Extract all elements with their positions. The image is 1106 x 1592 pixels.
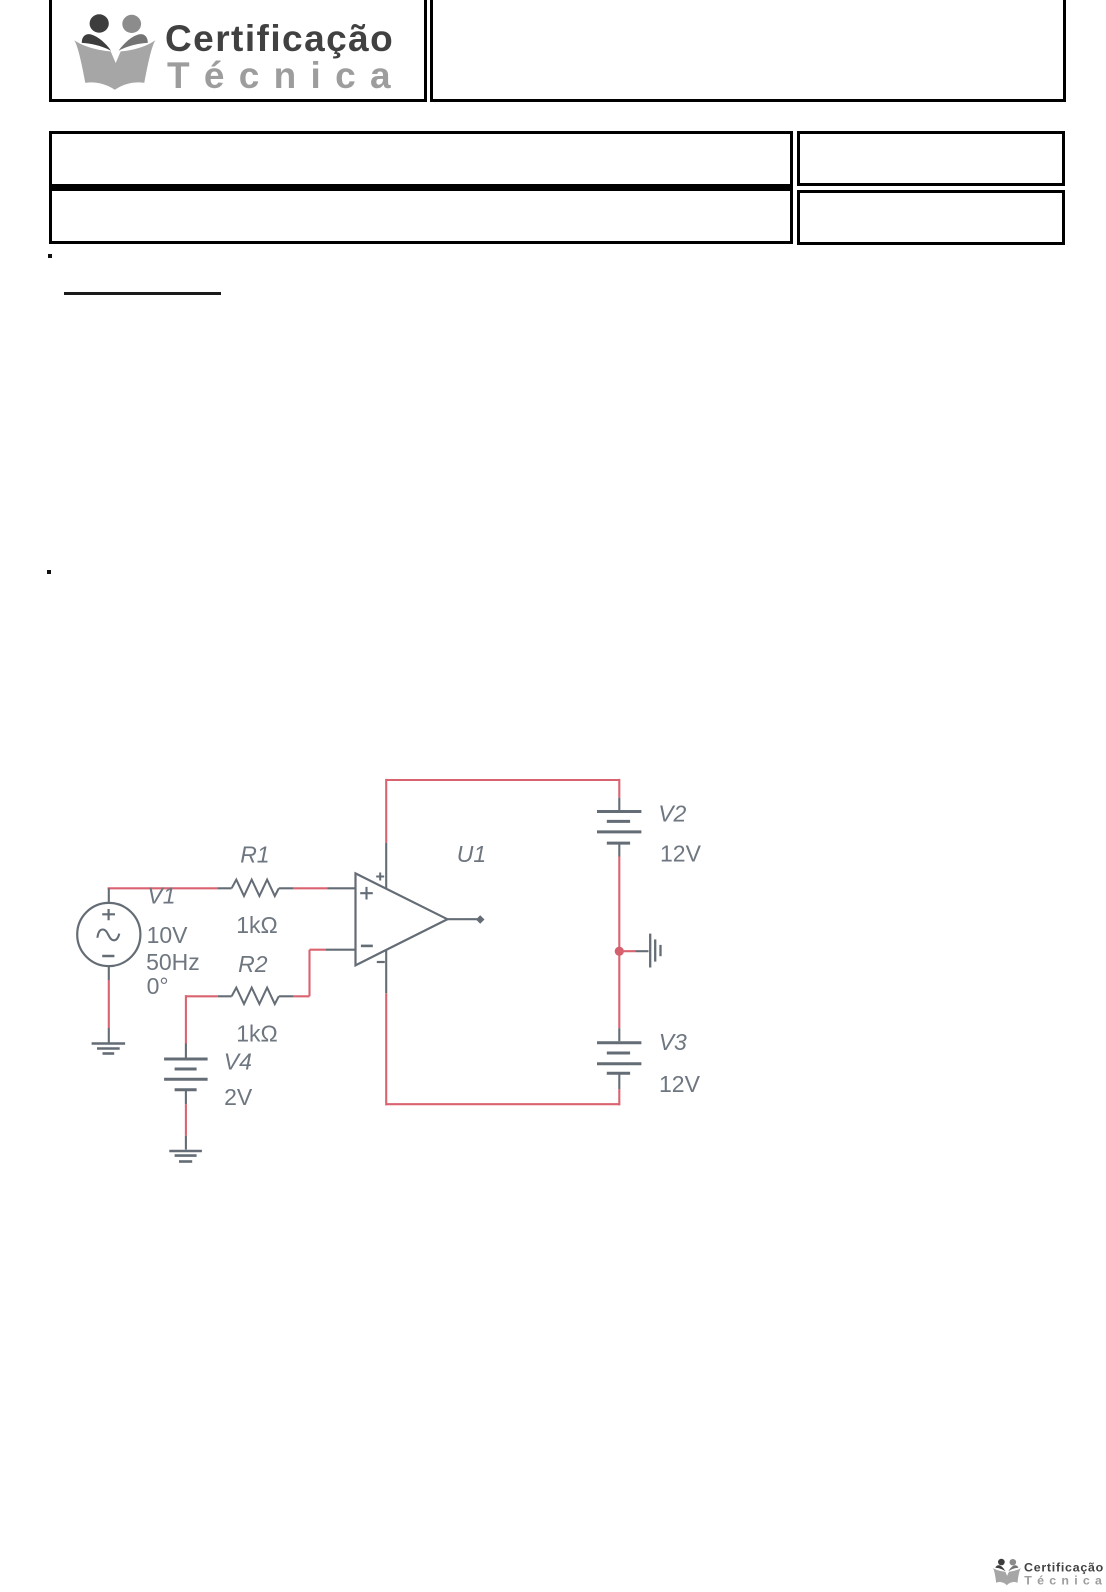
- svg-text:50Hz: 50Hz: [146, 949, 200, 975]
- label V4: [224, 1048, 252, 1074]
- label 12V (V3): [659, 1071, 701, 1097]
- header logo: [0, 0, 420, 110]
- wire: V1 to R1 (non-inverting input net): [108, 887, 232, 889]
- label 12V (V2): [660, 840, 702, 866]
- op-amp U1: [356, 873, 448, 966]
- wire: V4 bottom stub: [185, 1104, 187, 1149]
- label R2: [238, 951, 268, 977]
- info table: left big cell: [49, 131, 793, 244]
- wire: R1 to op-amp + input: [279, 887, 356, 889]
- resistor R2: [232, 988, 279, 1004]
- wire: junction to ground branch: [619, 950, 648, 952]
- label 2V: [224, 1084, 253, 1110]
- header right box: [430, 0, 1066, 102]
- wire: R2 to op-amp - input: [279, 950, 356, 997]
- right cell row2: [797, 190, 1065, 245]
- svg-text:Certificação: Certificação: [1024, 1560, 1104, 1574]
- battery V3: [597, 1043, 641, 1089]
- battery V2: [597, 812, 641, 857]
- svg-text:1kΩ: 1kΩ: [236, 1021, 278, 1047]
- label 50Hz: [146, 949, 200, 975]
- wire: op-amp output: [447, 918, 477, 920]
- wire: R2 left to V4: [186, 995, 232, 1058]
- label V1: [147, 882, 175, 908]
- svg-text:V4: V4: [224, 1048, 252, 1074]
- wire: V3 bottom stub: [618, 1089, 620, 1105]
- svg-text:12V: 12V: [660, 840, 702, 866]
- source V1: [77, 903, 140, 966]
- svg-text:V2: V2: [658, 801, 686, 827]
- svg-text:R1: R1: [240, 842, 269, 868]
- right cell row1: [797, 131, 1065, 186]
- svg-text:10V: 10V: [147, 922, 189, 948]
- label U1: [457, 841, 486, 867]
- svg-text:V3: V3: [659, 1029, 687, 1055]
- underline: [64, 292, 221, 295]
- wire: V2 to junction to V3: [618, 857, 620, 1042]
- ground (below V4): [169, 1151, 202, 1162]
- wire: V2 top stub: [618, 779, 620, 810]
- wire: V- rail bottom horizontal: [386, 1103, 619, 1105]
- header left box (logo box): [49, 0, 427, 102]
- svg-text:12V: 12V: [659, 1071, 701, 1097]
- svg-text:U1: U1: [457, 841, 486, 867]
- svg-text:1kΩ: 1kΩ: [236, 912, 278, 938]
- svg-text:V1: V1: [147, 882, 175, 908]
- label V3: [659, 1029, 687, 1055]
- resistor R1: [232, 880, 279, 896]
- label 1kΩ (R1): [236, 912, 278, 938]
- footer logo: [985, 1550, 1106, 1592]
- battery V4: [164, 1059, 208, 1104]
- svg-text:Técnica: Técnica: [1024, 1573, 1106, 1587]
- ground (right, rotated): [650, 934, 660, 968]
- thick divider bar: [49, 184, 793, 191]
- svg-text:R2: R2: [238, 951, 268, 977]
- svg-text:2V: 2V: [224, 1084, 253, 1110]
- node: output terminal diamond: [476, 915, 485, 924]
- label 1kΩ (R2): [236, 1021, 278, 1047]
- svg-text:0°: 0°: [147, 973, 169, 999]
- wire: V1 bottom stub: [108, 966, 110, 1042]
- wire: V1 top stub: [108, 888, 110, 903]
- wire: op-amp V+ pin vertical: [385, 779, 387, 889]
- junction node: [615, 947, 624, 956]
- bullet dot 1: [48, 254, 52, 258]
- label 10V: [147, 922, 189, 948]
- label 0°: [147, 973, 169, 999]
- label V2: [658, 801, 686, 827]
- label R1: [240, 842, 269, 868]
- bullet dot 2: [47, 570, 51, 574]
- ground (below V1): [92, 1044, 126, 1054]
- wire: op-amp V- pin vertical: [385, 950, 387, 1105]
- wire: V+ rail top horizontal: [386, 779, 619, 781]
